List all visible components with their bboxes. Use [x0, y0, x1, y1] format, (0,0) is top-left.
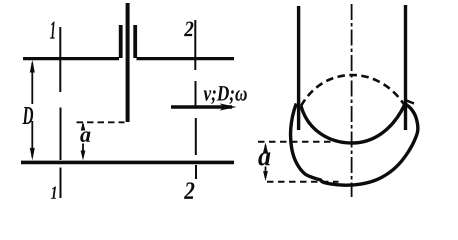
dashed level line upper (rim bottom) [258, 141, 331, 143]
dimension a (pipe) arrow down [81, 151, 86, 161]
dimension a (ball) arrow down [263, 171, 268, 181]
svg-text:a: a [258, 141, 271, 172]
dimension D line [31, 63, 33, 157]
section line 1 upper [59, 27, 61, 160]
dimension D arrow up [30, 60, 35, 73]
dimension a (pipe) line [82, 124, 84, 157]
rim ellipse back (dashed) [301, 75, 405, 106]
flow arrowhead [220, 103, 237, 110]
rim dash overshoot [407, 101, 415, 104]
svg-text:v;D;ω: v;D;ω [203, 81, 247, 106]
section line 2 upper [194, 20, 197, 155]
section line 2 lower [195, 165, 197, 179]
ball silhouette [291, 104, 418, 186]
pipe bottom wall [21, 161, 234, 165]
svg-text:1: 1 [50, 184, 57, 204]
gate plate [126, 3, 130, 122]
flow arrow [171, 105, 232, 108]
dashed gap line at plate bottom [77, 121, 125, 123]
tube left line [297, 6, 300, 130]
dimension a (ball) arrow up [263, 143, 268, 153]
tube axis centerline [351, 4, 353, 197]
dashed level line lower (ball bottom) [267, 181, 339, 183]
dimension a (ball) line [265, 145, 267, 178]
svg-text:a: a [80, 122, 91, 147]
svg-text:2: 2 [183, 16, 193, 41]
pipe top wall right segment [137, 57, 235, 60]
svg-text:D: D [22, 101, 34, 130]
pipe top wall left segment [23, 57, 119, 60]
section line 1 lower [60, 168, 62, 199]
svg-text:2: 2 [183, 178, 194, 205]
rim ellipse front (solid) [301, 105, 405, 143]
gland stub left [119, 25, 123, 58]
dimension D arrow down [30, 148, 35, 161]
dimension a (pipe) arrow up [81, 122, 86, 131]
tube right line [404, 5, 407, 130]
svg-text:1: 1 [50, 16, 56, 45]
gland stub right [133, 25, 137, 58]
